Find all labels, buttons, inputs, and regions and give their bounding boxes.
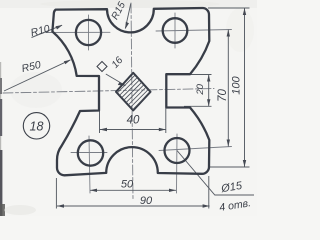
centerline hole BR vertical / 50 extension right <box>176 134 179 193</box>
hatching in diamond <box>76 65 205 125</box>
arrow leader R10 <box>56 25 63 30</box>
centerline vertical main <box>131 3 133 200</box>
dim 90 line <box>57 205 210 207</box>
svg-text:100: 100 <box>230 75 242 94</box>
arrow dim20 top <box>207 75 210 82</box>
centerline hole TR vertical <box>174 13 176 48</box>
arrow dim50 right <box>169 189 176 192</box>
paper background <box>0 0 257 216</box>
leader R15 <box>125 4 131 29</box>
centerline hole BR horizontal / 70 extension bottom <box>159 147 232 151</box>
dim 20 line <box>208 75 210 107</box>
dim 40 extension lines <box>99 110 101 133</box>
dim 100 line <box>244 8 246 167</box>
dim 100 extension lines <box>208 7 250 9</box>
leader R50 <box>4 60 71 91</box>
centerline hole TL horizontal <box>46 31 110 33</box>
arrow dim100 bottom <box>243 160 246 167</box>
leader dia15 with shelf <box>177 151 254 196</box>
arrowheads (thin filled) <box>56 8 247 208</box>
hole TL <box>76 20 101 45</box>
dim 90 extension lines <box>55 178 57 209</box>
arrow dim90 left <box>57 204 64 207</box>
svg-text:18: 18 <box>30 120 44 134</box>
hole BR <box>165 138 190 163</box>
svg-text:40: 40 <box>127 115 140 127</box>
arrow dim50 left <box>90 189 97 192</box>
circled 18 <box>23 113 49 139</box>
centerline hole BL vertical / 50 extension left <box>89 136 90 193</box>
arrow leader R15 <box>125 22 129 29</box>
hole TR <box>163 18 188 43</box>
hole BL <box>78 140 103 165</box>
svg-text:90: 90 <box>140 195 153 207</box>
centerline hole BL horizontal <box>71 152 107 154</box>
arrow leader square16 <box>118 82 126 86</box>
part outline <box>52 8 209 175</box>
arrow dim100 top <box>243 8 246 15</box>
svg-text:50: 50 <box>121 178 134 190</box>
centerline hole TR horizontal / 70 extension top <box>156 30 232 32</box>
svg-text:70: 70 <box>217 89 229 102</box>
arrow leader R50 <box>64 60 71 65</box>
square16 symbol <box>97 62 107 72</box>
arrow dim70 top <box>227 30 230 37</box>
dim 70 line <box>227 30 229 147</box>
arrow dim40 left <box>100 128 108 131</box>
centerline hole TL vertical <box>88 15 90 50</box>
svg-text:20: 20 <box>195 83 206 95</box>
dim 20 extension lines <box>186 74 212 76</box>
square hole (diamond) <box>116 73 151 111</box>
arrow dim70 bottom <box>227 140 230 147</box>
centerline horizontal main <box>3 89 214 94</box>
leader R10 <box>32 25 63 37</box>
arrow dim40 right <box>159 128 166 131</box>
leader square16 <box>106 74 126 86</box>
scan edge artifacts left <box>0 62 1 216</box>
arrow dim20 bottom <box>207 99 210 106</box>
dim 40 line <box>100 129 166 131</box>
dim 50 line <box>90 189 176 191</box>
arrow dim90 right <box>203 204 210 207</box>
